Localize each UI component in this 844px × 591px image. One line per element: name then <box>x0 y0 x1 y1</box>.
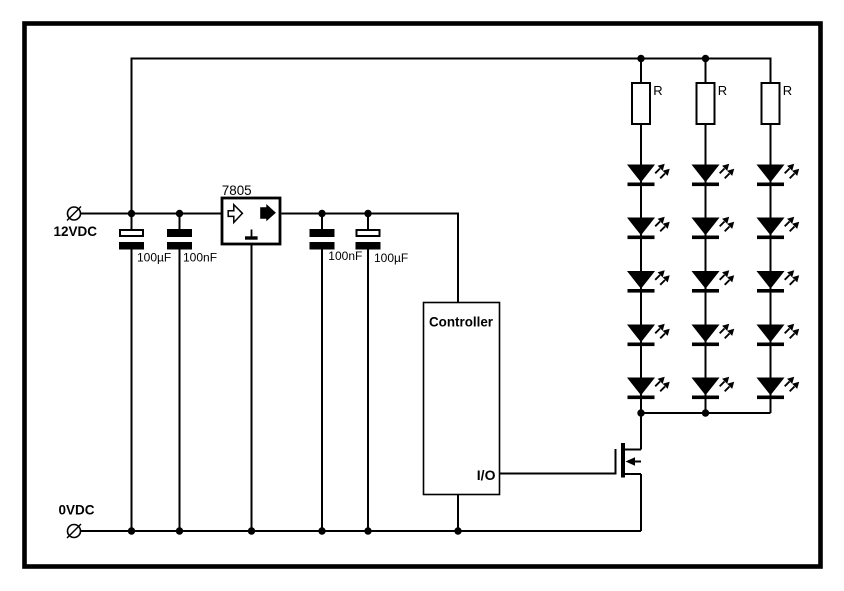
svg-text:I/O: I/O <box>477 467 496 483</box>
svg-text:Controller: Controller <box>429 314 494 329</box>
LED D12 <box>757 217 799 239</box>
wire MOSFET drain <box>640 413 642 450</box>
junction node <box>637 55 644 62</box>
LED D3 <box>628 270 670 292</box>
regulator input arrow <box>228 205 242 223</box>
wire 5V output rail to controller <box>282 214 459 303</box>
junction node <box>318 527 325 534</box>
svg-text:R: R <box>783 83 792 98</box>
wire MOSFET source to 0V <box>640 474 642 531</box>
wire column 3 <box>770 124 772 413</box>
junction node <box>364 210 371 217</box>
junction node <box>702 55 709 62</box>
wire LED cathode rail <box>641 412 771 414</box>
regulator output arrow <box>260 204 276 221</box>
terminal 0VDC <box>67 524 81 538</box>
LED D6 <box>692 164 734 186</box>
resistor R1 <box>632 83 650 124</box>
svg-text:12VDC: 12VDC <box>54 224 98 239</box>
LED D11 <box>757 164 799 186</box>
transistor Q1 MOSFET <box>616 443 642 478</box>
wire controller ground lead <box>457 495 459 532</box>
wire column 2 <box>705 59 707 414</box>
wire 0V bottom rail <box>81 530 642 532</box>
terminal 12VDC <box>67 207 81 221</box>
wire column 1 <box>640 59 642 414</box>
resistor R2 <box>697 83 715 124</box>
capacitor C3 100nF <box>310 214 335 532</box>
wire regulator ground lead <box>251 245 253 532</box>
junction node <box>637 409 644 416</box>
capacitor C1 100uF <box>119 214 144 532</box>
svg-text:0VDC: 0VDC <box>59 502 95 517</box>
junction node <box>248 527 255 534</box>
junction node <box>128 527 135 534</box>
LED D8 <box>692 270 734 292</box>
LED D14 <box>757 324 799 346</box>
LED D15 <box>757 377 799 399</box>
wire 12V riser and top rail <box>132 59 771 214</box>
LED D1 <box>628 164 670 186</box>
wire I/O to gate <box>500 473 616 475</box>
LED D7 <box>692 217 734 239</box>
wire 12V input rail <box>81 213 222 215</box>
svg-text:100µF: 100µF <box>374 251 408 265</box>
controller U2 box <box>424 303 500 495</box>
capacitor C4 100uF <box>356 214 381 532</box>
svg-text:7805: 7805 <box>222 183 252 198</box>
svg-text:100nF: 100nF <box>183 250 217 264</box>
svg-text:100µF: 100µF <box>137 250 171 264</box>
LED D5 <box>628 377 670 399</box>
junction node <box>176 210 183 217</box>
regulator U1 7805 box <box>222 198 280 244</box>
svg-text:100nF: 100nF <box>328 249 362 263</box>
LED D13 <box>757 270 799 292</box>
junction node <box>318 210 325 217</box>
junction node <box>364 527 371 534</box>
LED D9 <box>692 324 734 346</box>
LED D4 <box>628 324 670 346</box>
capacitor C2 100nF <box>167 214 192 532</box>
LED D2 <box>628 217 670 239</box>
junction node <box>702 409 709 416</box>
regulator ground symbol <box>245 230 258 240</box>
svg-text:R: R <box>653 83 662 98</box>
LED D10 <box>692 377 734 399</box>
junction node <box>454 527 461 534</box>
svg-text:R: R <box>718 83 727 98</box>
junction node <box>128 210 135 217</box>
junction node <box>176 527 183 534</box>
resistor R3 <box>762 83 780 124</box>
